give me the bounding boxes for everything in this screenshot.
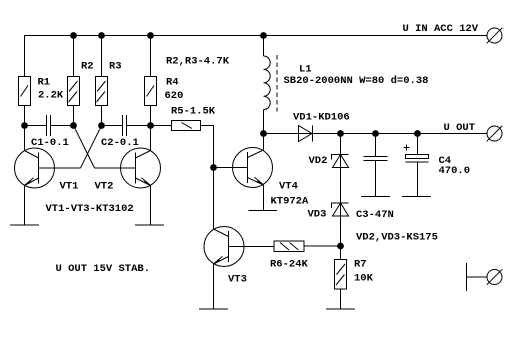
- wire VD2 VD3 R7 column: [340, 134, 342, 260]
- node I C4 top: [414, 130, 421, 137]
- wire R7 bottom: [340, 289, 342, 309]
- wire R4 bottom: [150, 106, 152, 126]
- wire VT1 base cross-coupling diagonal to node C: [81, 126, 102, 169]
- node J R6/R7: [337, 243, 344, 250]
- inductor L1: [264, 55, 278, 112]
- ground C3: [361, 196, 390, 198]
- svg-text:470.0: 470.0: [439, 165, 471, 177]
- wire R6 to node J: [304, 245, 341, 247]
- capacitor C3: [364, 134, 388, 197]
- wire VT4 collector: [263, 134, 265, 151]
- wire VT2 collector: [150, 126, 152, 151]
- node E VT4 base: [210, 164, 217, 171]
- wire R1 bottom: [24, 106, 26, 126]
- ground VT3: [199, 308, 228, 310]
- svg-text:R5-1.5K: R5-1.5K: [171, 106, 216, 118]
- svg-text:VT1: VT1: [60, 181, 79, 193]
- node bus-R2: [70, 32, 77, 39]
- wire VT1 collector: [24, 126, 26, 151]
- ground VT1: [10, 224, 39, 226]
- svg-text:U OUT 15V STAB.: U OUT 15V STAB.: [56, 263, 151, 275]
- ground VT4: [249, 210, 278, 212]
- ground C4: [402, 196, 431, 198]
- wire node C to C2: [102, 125, 123, 127]
- wire R3 top drop: [101, 36, 103, 77]
- svg-text:VT2: VT2: [95, 181, 114, 193]
- terminal U IN: [487, 28, 503, 44]
- svg-text:C1-0.1: C1-0.1: [31, 137, 69, 149]
- svg-text:2.2K: 2.2K: [38, 90, 64, 102]
- wire C2 to node D: [127, 125, 151, 127]
- resistor R1: [19, 77, 31, 106]
- svg-text:VT3: VT3: [228, 274, 247, 286]
- wire L1 bottom: [263, 110, 265, 134]
- svg-text:R7: R7: [354, 259, 367, 271]
- wire R2 top drop: [73, 36, 75, 77]
- wire R2 bottom: [73, 106, 75, 126]
- svg-text:SB20-2000NN W=80 d=0.38: SB20-2000NN W=80 d=0.38: [284, 75, 429, 87]
- transistor VT2: [95, 148, 161, 188]
- node A VT1 collector row: [21, 122, 28, 129]
- terminal common bottom right: [467, 263, 503, 291]
- zener diode VD2: [332, 155, 349, 168]
- ground VT2: [135, 224, 164, 226]
- svg-text:R6-24K: R6-24K: [270, 259, 309, 271]
- svg-text:VD2,VD3-KS175: VD2,VD3-KS175: [356, 232, 438, 244]
- resistor R2: [68, 77, 80, 106]
- wire VT4 base lead: [214, 167, 248, 169]
- resistor R5: [172, 121, 201, 131]
- resistor R7: [335, 260, 347, 290]
- svg-text:620: 620: [165, 90, 184, 102]
- svg-text:U OUT: U OUT: [444, 122, 476, 134]
- capacitor C4 electrolytic: [404, 134, 429, 197]
- wire VT2 emitter down: [150, 186, 152, 226]
- node C R3: [98, 122, 105, 129]
- wire node D to R5: [151, 125, 172, 127]
- wire VT1 emitter down: [24, 186, 26, 226]
- wire VT2 base cross-coupling diagonal to node B: [74, 126, 95, 169]
- transistor VT3: [204, 227, 274, 267]
- svg-text:VD1-KD106: VD1-KD106: [293, 112, 350, 124]
- svg-text:R2,R3-4.7K: R2,R3-4.7K: [166, 56, 230, 68]
- svg-text:VD3: VD3: [308, 209, 327, 221]
- wire R4 top drop: [150, 36, 152, 77]
- svg-text:U IN ACC 12V: U IN ACC 12V: [403, 23, 479, 35]
- svg-text:C2-0.1: C2-0.1: [101, 137, 139, 149]
- svg-text:R4: R4: [166, 77, 179, 89]
- wire VT4 emitter down: [263, 185, 265, 211]
- wire node F to VD1: [264, 133, 488, 135]
- wire node A to C1: [25, 125, 47, 127]
- svg-text:L1: L1: [299, 64, 312, 76]
- svg-text:C3-47N: C3-47N: [356, 209, 394, 221]
- svg-text:R2: R2: [81, 61, 94, 73]
- wire R3 bottom: [101, 106, 103, 126]
- transistor VT1: [15, 148, 81, 188]
- node bus-L1: [260, 32, 267, 39]
- node G VD2 top: [337, 130, 344, 137]
- svg-text:VT4: VT4: [279, 181, 298, 193]
- svg-text:KT972A: KT972A: [271, 196, 310, 208]
- terminal U OUT: [487, 126, 503, 142]
- svg-text:VD2: VD2: [309, 155, 328, 167]
- capacitor C2: [123, 115, 127, 136]
- node B C1-R2: [70, 122, 77, 129]
- svg-text:VT1-VT3-KT3102: VT1-VT3-KT3102: [46, 203, 134, 215]
- svg-text:R1: R1: [38, 77, 51, 89]
- node bus-R3: [98, 32, 105, 39]
- resistor R4: [145, 77, 157, 106]
- capacitor C1: [47, 115, 51, 136]
- resistor R6: [274, 241, 304, 252]
- svg-text:10K: 10K: [354, 273, 374, 285]
- resistor R3: [96, 77, 108, 106]
- node bus-R4: [147, 32, 154, 39]
- node H C3 top: [372, 130, 379, 137]
- wire top bus from left corner to input terminal: [25, 36, 488, 77]
- wire VT3 emitter down: [213, 264, 215, 309]
- zener diode VD3: [332, 203, 349, 216]
- ground R7: [326, 308, 355, 310]
- node F L1/VD1/VT4: [260, 130, 267, 137]
- transistor VT4: [233, 148, 273, 188]
- diode VD1: [299, 126, 313, 142]
- wire R5 right and drop to VT3 collector: [201, 126, 214, 230]
- wire L1 top drop: [263, 36, 265, 57]
- svg-text:R3: R3: [109, 61, 122, 73]
- wire C1 to node B: [51, 125, 74, 127]
- node D VT2 collector row: [147, 122, 154, 129]
